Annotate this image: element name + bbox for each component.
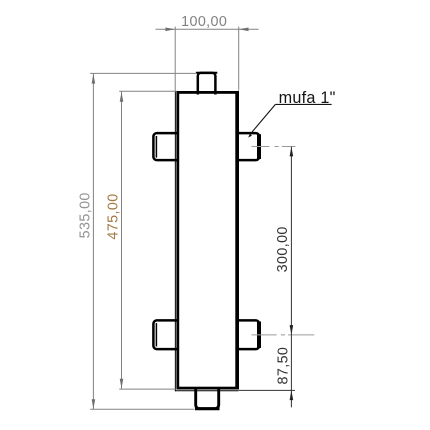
left lower port (mufa) [153, 320, 176, 349]
dimension 475,00 left inner [106, 91, 177, 389]
centerline lower right port [252, 334, 315, 336]
dimension 300,00 right [275, 147, 293, 335]
centerline upper right port [252, 146, 296, 148]
dimension 535,00 left [77, 73, 197, 409]
bottom port [195, 388, 220, 409]
right upper port (mufa) [237, 133, 260, 160]
svg-text:300,00: 300,00 [275, 226, 291, 272]
svg-text:87,50: 87,50 [276, 347, 292, 385]
dimension 87,50 right lower [239, 335, 295, 408]
body main rectangle [178, 92, 237, 388]
label mufa 1" with leader [248, 89, 335, 138]
svg-text:100,00: 100,00 [181, 14, 227, 30]
svg-text:475,00: 475,00 [106, 193, 122, 239]
body outer thin contour [175, 91, 239, 391]
top port [196, 73, 217, 95]
left upper port (mufa) [153, 133, 176, 160]
right lower port (mufa) [237, 320, 260, 349]
svg-text:535,00: 535,00 [77, 192, 93, 238]
dimension 100,00 top [156, 14, 259, 91]
